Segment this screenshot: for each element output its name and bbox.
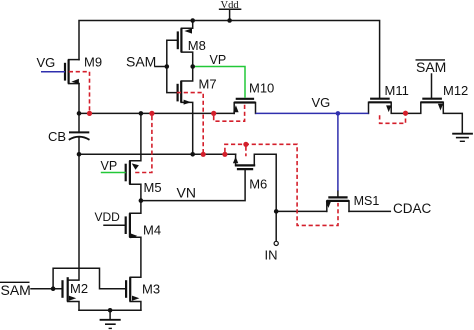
wire red dashed path node B to MS1 [225,144,338,225]
wire M8 source / M7 drain / node VP [181,52,193,81]
capacitor CB top plate [69,131,89,133]
wire VDD to M4 gate [104,224,126,226]
transistor M6 channel bar [235,164,255,166]
wire M3 source [130,302,141,311]
transistor M11 channel bar [369,101,392,103]
wire VN to M6 gate [141,170,245,201]
svg-text:CDAC: CDAC [393,201,432,216]
transistor M2 channel bar [67,277,69,301]
wire IN node to MS1 [276,210,327,212]
node VG blue junction dot [336,111,341,116]
wire bottom source rail [79,309,141,311]
wire ground stem bottom [109,310,111,319]
svg-text:VG: VG [312,95,331,110]
transistor M10 source arrow [233,105,238,112]
transistor M10 gate bar [236,98,254,100]
node red junction dots [87,111,92,116]
wire VP green net to M10 gate [193,67,245,98]
wire VG blue down to MS1 gate [337,113,339,190]
ground right [452,133,473,135]
transistor M12 channel bar [421,101,444,103]
transistor M10 channel bar [234,101,255,103]
wire node B horizontal (CB bottom rail y=154.3) [79,153,236,155]
wire left rail to CB top [78,84,80,133]
wire M4 source / M3 drain [130,237,141,277]
wire M12 source to ground [443,102,462,133]
svg-text:M2: M2 [70,281,88,296]
label SAM bar left overline [0,281,30,283]
wire red dashed path to M5 [134,116,152,173]
transistor M5 channel bar [129,161,131,185]
wire MS1 left lead [326,201,328,212]
wire SAMbar cross link to M3 gate [53,268,126,288]
wire M11 left lead [368,102,370,113]
wire SAM to gates [155,66,167,68]
svg-text:M10: M10 [249,81,274,96]
svg-text:M4: M4 [143,223,161,238]
wire red dashed path from M7 [177,93,203,152]
transistor M3 gate bar [125,280,127,298]
transistor M8 channel bar [180,28,182,52]
transistor M9 gate bar [64,63,66,81]
transistor MS1 gate bar [328,196,347,198]
wire VP green gate wire M5 [101,172,126,174]
ground bottom [100,319,121,321]
wire M7 source down [181,102,193,154]
transistor M8 gate bar [177,31,179,49]
transistor M6 gate bar [237,168,253,170]
svg-text:CB: CB [48,129,66,144]
transistor M3 channel bar [129,277,131,301]
wire M5 source / M4 drain node VN [130,184,141,213]
node junction dots [190,18,195,23]
transistor M4 channel bar [129,213,131,237]
transistor M2 gate bar [61,280,63,298]
capacitor CB bottom plate [69,137,90,140]
svg-text:VG: VG [37,55,56,70]
transistor M4 gate bar [125,216,127,234]
svg-text:MS1: MS1 [354,194,380,208]
wire red dashed branch to M6 [245,147,247,157]
transistor M8 source arrow [184,28,192,33]
wire MS1 gate stub [337,191,339,198]
wire SAMbar to M2 gate [31,288,63,290]
svg-text:M5: M5 [144,180,162,195]
svg-text:VN: VN [177,185,196,201]
wire Vdd top rail [79,21,380,99]
wire M10 right lead [255,103,257,114]
transistor M5 source arrow [132,163,139,169]
transistor M7 channel bar [180,81,182,102]
svg-text:M7: M7 [199,77,217,92]
transistor M9 source arrow [71,79,79,84]
svg-text:IN: IN [265,248,278,263]
wire M12 gate stub [431,74,433,99]
svg-text:VP: VP [210,53,227,67]
wire CB bottom to M2 drain [68,138,79,280]
transistor M5 gate bar [125,164,127,182]
svg-text:M11: M11 [385,83,409,98]
wire red dashed path to M10 [214,104,245,121]
wire M6 drain up to node B [235,154,237,165]
transistor M2 source arrow [69,296,76,301]
wire VG blue gate wire M9 [41,71,65,73]
wire M10 left lead [233,103,235,114]
transistor M6 source arrow [233,157,238,164]
wire M5 drain up to node A [130,113,141,160]
svg-text:SAM: SAM [416,59,446,75]
svg-text:M9: M9 [84,55,102,70]
wire MS1 to CDAC [349,210,390,212]
wire M2 source [68,302,79,311]
label SAM bar right overline [416,59,446,61]
wire red dashed path M11 to M12 [380,115,406,123]
wire M9 source lead [69,83,79,85]
wire VG blue net M10 to M11 [256,112,369,114]
wire M9 drain lead [69,59,79,61]
svg-text:VDD: VDD [95,210,121,224]
transistor M12 source arrow [438,104,443,111]
transistor M3 source arrow [132,296,139,301]
wire M6 source to node IN [254,154,276,211]
node IN terminal circle [274,241,278,245]
transistor M11 source arrow [386,105,391,112]
transistor M12 gate bar [422,98,442,100]
svg-text:VP: VP [101,159,118,173]
transistor M9 channel bar [67,60,69,84]
wire M8 drain to rail [181,21,192,29]
wire node IN stem [275,211,277,241]
transistor M7 source arrow [184,100,192,105]
wire M8 M7 common gate [167,40,178,92]
wire M11 drain to M12 drain [391,102,421,113]
transistor M4 source arrow [131,233,138,238]
transistor M7 gate bar [177,84,179,102]
wire red dashed path from M9 [69,72,90,112]
transistor M11 gate bar [370,98,390,100]
wire MS1 right lead [348,201,350,212]
transistor MS1 channel bar [327,200,349,202]
transistor MS1 source arrow [326,201,331,208]
svg-text:M6: M6 [249,177,267,192]
svg-text:M3: M3 [142,282,160,297]
power Vdd symbol tick and underline [220,9,241,20]
svg-text:M8: M8 [188,38,206,53]
svg-text:SAM: SAM [1,282,31,298]
svg-text:Vdd: Vdd [221,0,240,11]
svg-text:SAM: SAM [126,53,156,69]
wire node A horizontal (M9 source rail y=113.4) [79,112,234,114]
svg-text:M12: M12 [443,83,468,98]
